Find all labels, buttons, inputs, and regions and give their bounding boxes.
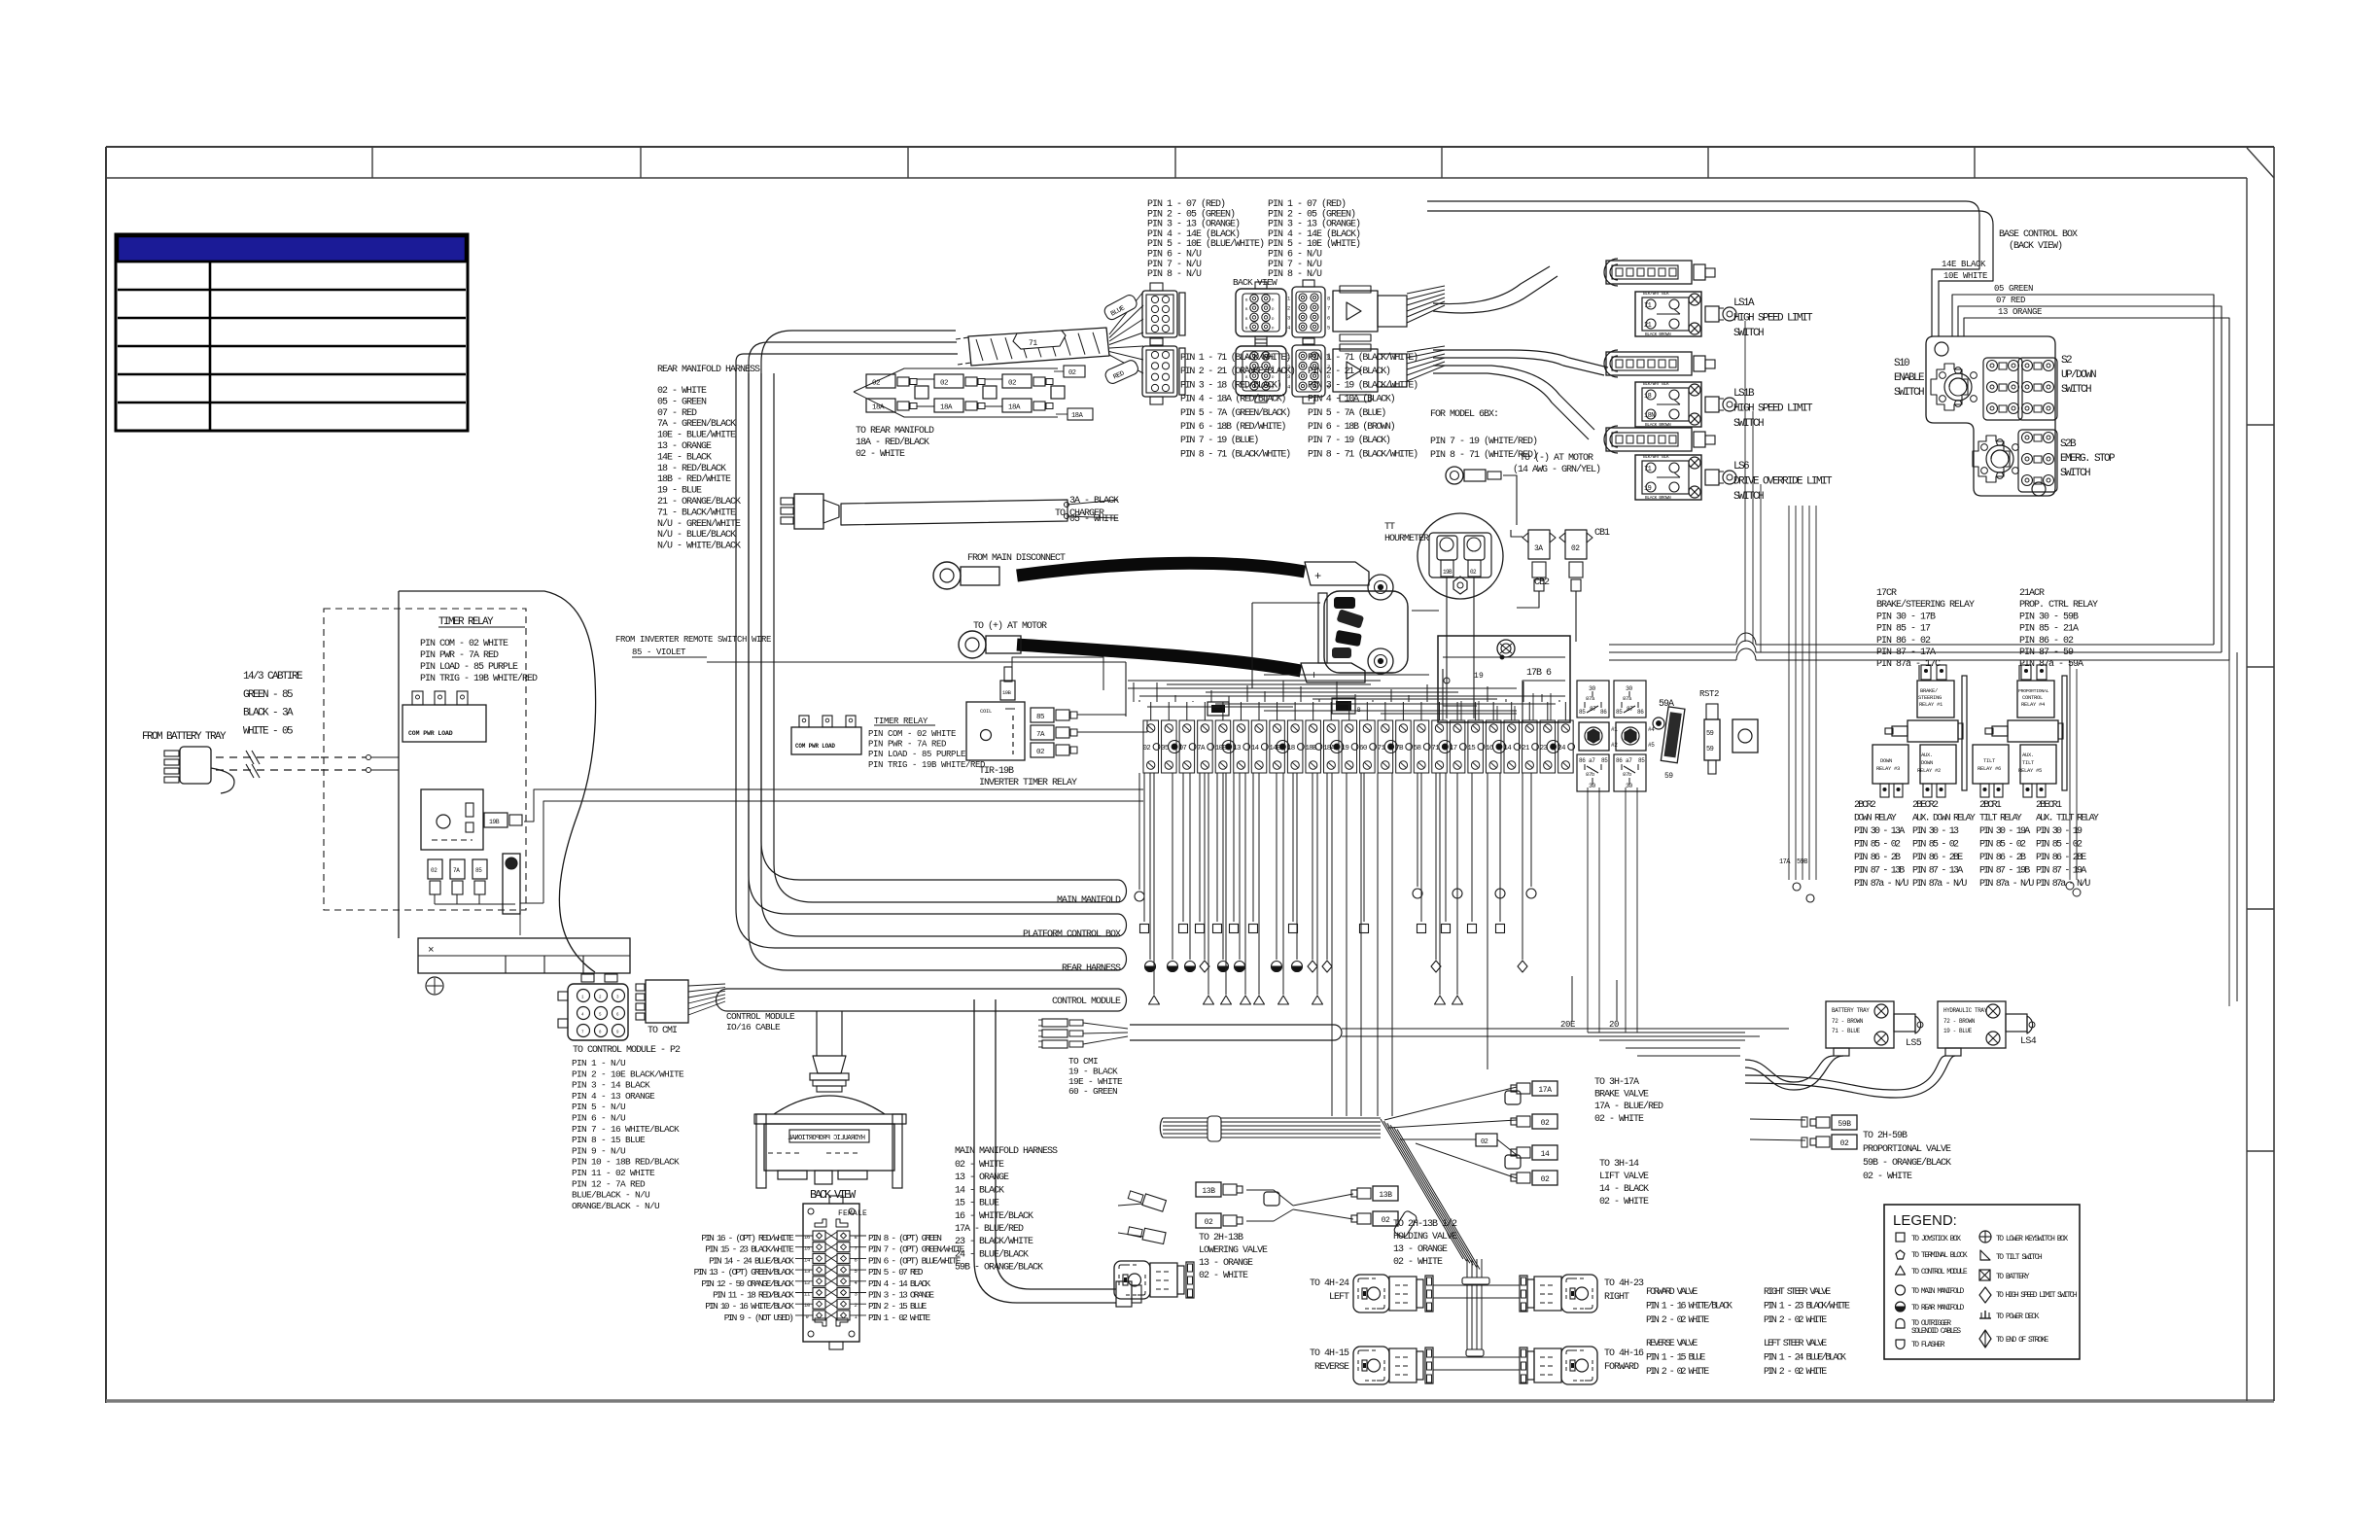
svg-text:72 - BROWN: 72 - BROWN [1832, 1018, 1864, 1025]
svg-text:TO 4H-23: TO 4H-23 [1604, 1278, 1644, 1289]
svg-text:PIN 3 - 13 (ORANGE): PIN 3 - 13 (ORANGE) [1147, 219, 1240, 230]
svg-text:PIN 2 - 02 WHITE: PIN 2 - 02 WHITE [1764, 1367, 1827, 1378]
svg-text:19: 19 [1644, 485, 1652, 493]
svg-text:18N: 18N [1644, 412, 1655, 420]
svg-text:(BACK VIEW): (BACK VIEW) [2009, 240, 2062, 252]
svg-text:TO TERMINAL BLOCK: TO TERMINAL BLOCK [1911, 1251, 1968, 1260]
svg-text:BRAKE VALVE: BRAKE VALVE [1594, 1090, 1649, 1101]
svg-text:SWITCH: SWITCH [1733, 328, 1764, 339]
svg-text:71: 71 [1644, 466, 1652, 473]
svg-text:RELAY #6: RELAY #6 [1977, 765, 2001, 772]
svg-text:5: 5 [854, 1268, 857, 1275]
svg-text:PIN 8 - N/U: PIN 8 - N/U [1147, 268, 1202, 280]
svg-text:BRAKE/: BRAKE/ [1920, 687, 1938, 694]
svg-text:AUX.: AUX. [2022, 752, 2034, 758]
svg-text:LOWERING VALVE: LOWERING VALVE [1199, 1245, 1268, 1256]
svg-text:13B: 13B [1202, 1187, 1215, 1196]
svg-text:TO MAIN MANIFOLD: TO MAIN MANIFOLD [1911, 1287, 1965, 1296]
svg-text:02 - WHITE: 02 - WHITE [1863, 1172, 1912, 1182]
svg-text:PIN 8 - 71 (BLACK/WHITE): PIN 8 - 71 (BLACK/WHITE) [1180, 448, 1290, 460]
svg-text:IO/16 CABLE: IO/16 CABLE [726, 1022, 781, 1032]
svg-text:TO LOWER KEYSWITCH BOX: TO LOWER KEYSWITCH BOX [1996, 1235, 2068, 1243]
svg-text:14 - BLACK: 14 - BLACK [1599, 1184, 1649, 1195]
svg-text:71 - BLACK/WHITE: 71 - BLACK/WHITE [657, 507, 736, 518]
svg-text:14: 14 [1251, 745, 1260, 752]
svg-text:TT: TT [1384, 522, 1395, 533]
svg-text:02 - WHITE: 02 - WHITE [955, 1160, 1004, 1171]
svg-text:TO REAR MANIFOLD: TO REAR MANIFOLD [1911, 1304, 1965, 1312]
svg-text:30: 30 [1626, 685, 1632, 692]
svg-text:BASE CONTROL BOX: BASE CONTROL BOX [1999, 229, 2078, 240]
svg-text:13: 13 [1233, 745, 1242, 752]
svg-text:PIN 87a - N/U: PIN 87a - N/U [1979, 878, 2034, 890]
svg-text:23 - BLACK/WHITE: 23 - BLACK/WHITE [955, 1236, 1033, 1247]
svg-text:15: 15 [1467, 745, 1476, 752]
svg-text:59A: 59A [1659, 699, 1674, 710]
svg-text:PIN 86 - 2BE: PIN 86 - 2BE [1912, 853, 1963, 863]
svg-text:PIN 5 - 7A (GREEN/BLACK): PIN 5 - 7A (GREEN/BLACK) [1180, 407, 1290, 419]
svg-text:PIN 87 - 19B: PIN 87 - 19B [1979, 866, 2030, 877]
svg-text:PIN TRIG - 19B WHITE/RED: PIN TRIG - 19B WHITE/RED [420, 673, 538, 684]
svg-text:RELAY #2: RELAY #2 [1917, 767, 1941, 774]
svg-text:FORWARD VALVE: FORWARD VALVE [1646, 1287, 1697, 1298]
svg-text:TO TILT SWITCH: TO TILT SWITCH [1996, 1253, 2043, 1262]
svg-text:PIN 87a - N/U: PIN 87a - N/U [2036, 878, 2090, 890]
svg-text:18A - RED/BLACK: 18A - RED/BLACK [856, 437, 929, 448]
svg-text:PIN 30 - 19A: PIN 30 - 19A [1979, 826, 2030, 837]
svg-text:+: + [1314, 570, 1322, 583]
svg-text:PIN 1 - N/U: PIN 1 - N/U [572, 1058, 626, 1068]
svg-text:PIN PWR - 7A RED: PIN PWR - 7A RED [420, 650, 499, 661]
svg-text:SWITCH: SWITCH [2061, 384, 2091, 396]
svg-text:PIN 3 - 18 (RED/BLACK): PIN 3 - 18 (RED/BLACK) [1180, 379, 1281, 391]
svg-text:PIN 8 - 71 (BLACK/WHITE): PIN 8 - 71 (BLACK/WHITE) [1308, 448, 1417, 460]
svg-text:02: 02 [1470, 569, 1477, 576]
svg-text:BRAKE/STEERING RELAY: BRAKE/STEERING RELAY [1876, 599, 1975, 611]
svg-text:2BECR2: 2BECR2 [1912, 800, 1939, 811]
svg-text:TO REAR MANIFOLD: TO REAR MANIFOLD [856, 426, 934, 437]
svg-text:7A: 7A [453, 867, 460, 874]
svg-text:86: 86 [1600, 709, 1607, 716]
svg-text:PIN 9 - (NOT USED): PIN 9 - (NOT USED) [724, 1312, 793, 1323]
svg-text:PIN TRIG - 19B WHITE/RED: PIN TRIG - 19B WHITE/RED [868, 760, 985, 770]
svg-text:19 - BLUE: 19 - BLUE [1943, 1028, 1973, 1034]
svg-text:PIN 15 - 23 BLACK/WHITE: PIN 15 - 23 BLACK/WHITE [705, 1244, 794, 1255]
svg-text:60 - GREEN: 60 - GREEN [1068, 1086, 1117, 1097]
svg-text:STEERING: STEERING [1918, 694, 1942, 701]
svg-text:PIN 1 - 07 (RED): PIN 1 - 07 (RED) [1268, 198, 1346, 210]
svg-text:PIN 2 - 05 (GREEN): PIN 2 - 05 (GREEN) [1147, 208, 1235, 220]
svg-text:02: 02 [872, 380, 880, 388]
svg-text:58: 58 [1414, 745, 1421, 752]
svg-text:PIN 1 - 23 BLACK/WHITE: PIN 1 - 23 BLACK/WHITE [1764, 1300, 1850, 1312]
svg-text:S2: S2 [2061, 355, 2072, 367]
svg-text:TO (-) AT MOTOR: TO (-) AT MOTOR [1520, 452, 1593, 464]
svg-text:TO 3H-17A: TO 3H-17A [1594, 1077, 1639, 1088]
svg-text:85: 85 [1036, 714, 1045, 721]
svg-text:LS6: LS6 [1733, 461, 1749, 472]
svg-text:13 - ORANGE: 13 - ORANGE [1199, 1258, 1253, 1269]
svg-text:RELAY #1: RELAY #1 [1919, 701, 1943, 708]
svg-text:TO HIGH SPEED LIMIT SWITCH: TO HIGH SPEED LIMIT SWITCH [1996, 1291, 2078, 1300]
svg-text:19B: 19B [489, 819, 500, 825]
svg-text:TO (+) AT MOTOR: TO (+) AT MOTOR [973, 620, 1047, 632]
svg-text:PIN 4 - 10A (BLACK): PIN 4 - 10A (BLACK) [1308, 394, 1395, 405]
svg-text:COIL: COIL [980, 708, 992, 715]
svg-text:2BECR1: 2BECR1 [2036, 800, 2062, 811]
svg-text:PIN 8 - (OPT) GREEN: PIN 8 - (OPT) GREEN [868, 1233, 941, 1243]
svg-text:59B - ORANGE/BLACK: 59B - ORANGE/BLACK [955, 1262, 1043, 1274]
svg-text:TO CMI: TO CMI [647, 1026, 677, 1036]
svg-text:PIN 7 - 19 (BLUE): PIN 7 - 19 (BLUE) [1180, 435, 1258, 446]
svg-text:18A: 18A [1071, 412, 1084, 420]
svg-text:18A: 18A [940, 404, 953, 412]
svg-text:HYDRAULIC PROPORTIONAL: HYDRAULIC PROPORTIONAL [787, 1135, 865, 1142]
svg-text:FROM MAIN DISCONNECT: FROM MAIN DISCONNECT [967, 553, 1066, 564]
svg-text:PIN 4 - 13 ORANGE: PIN 4 - 13 ORANGE [572, 1091, 655, 1102]
svg-text:#5: #5 [1648, 742, 1655, 749]
svg-text:05 - WHITE: 05 - WHITE [1069, 514, 1119, 525]
svg-text:PIN 6 - (OPT) BLUE/WHITE: PIN 6 - (OPT) BLUE/WHITE [868, 1255, 962, 1266]
svg-text:PLATFORM CONTROL BOX: PLATFORM CONTROL BOX [1023, 929, 1121, 940]
svg-text:PIN 2 - 15 BLUE: PIN 2 - 15 BLUE [868, 1301, 927, 1312]
svg-text:PIN 6 - N/U: PIN 6 - N/U [572, 1113, 626, 1124]
svg-text:17CR: 17CR [1876, 588, 1897, 599]
svg-text:02: 02 [1840, 1139, 1849, 1148]
svg-text:14E BLACK: 14E BLACK [1942, 260, 1986, 269]
svg-text:PIN 12 - 7A RED: PIN 12 - 7A RED [572, 1178, 646, 1189]
svg-text:#2: #2 [1611, 742, 1618, 749]
svg-text:PIN 2 - 21 (ORANGE/BLACK): PIN 2 - 21 (ORANGE/BLACK) [1180, 366, 1295, 377]
svg-text:02: 02 [1541, 1119, 1550, 1128]
svg-text:72 - BROWN: 72 - BROWN [1943, 1018, 1976, 1025]
svg-text:SWITCH: SWITCH [1894, 387, 1924, 399]
svg-text:PIN COM - 02 WHITE: PIN COM - 02 WHITE [868, 729, 956, 739]
svg-text:PIN 3 - 14 BLACK: PIN 3 - 14 BLACK [572, 1080, 650, 1091]
svg-text:2BCR1: 2BCR1 [1979, 800, 2002, 811]
svg-text:10: 10 [804, 1302, 810, 1309]
svg-text:PIN 86 - 2B: PIN 86 - 2B [1979, 853, 2026, 863]
svg-text:14/3 CABTIRE: 14/3 CABTIRE [243, 671, 303, 682]
svg-text:CONTROL: CONTROL [2022, 694, 2043, 701]
svg-text:TILT: TILT [2022, 759, 2035, 766]
svg-text:17A: 17A [1538, 1086, 1552, 1095]
svg-text:16: 16 [804, 1234, 810, 1241]
svg-text:19 - BLACK: 19 - BLACK [1068, 1066, 1118, 1076]
svg-text:BLK/WHT BLK: BLK/WHT BLK [1643, 454, 1669, 460]
svg-text:3A - BLACK: 3A - BLACK [1069, 496, 1119, 507]
svg-text:21: 21 [1644, 322, 1652, 330]
svg-text:AUX.: AUX. [1921, 752, 1933, 758]
svg-text:PIN 10 - 16 WHITE/BLACK: PIN 10 - 16 WHITE/BLACK [705, 1301, 794, 1312]
svg-text:TIR-19B: TIR-19B [979, 766, 1014, 777]
svg-text:02: 02 [431, 867, 437, 874]
svg-text:9: 9 [805, 1313, 808, 1320]
svg-text:PIN 87a - N/U: PIN 87a - N/U [1912, 878, 1967, 890]
svg-text:PIN PWR - 7A RED: PIN PWR - 7A RED [868, 740, 946, 750]
svg-text:GREEN - 85: GREEN - 85 [243, 689, 293, 701]
svg-text:REAR HARNESS: REAR HARNESS [1062, 963, 1121, 974]
svg-text:59B: 59B [1797, 858, 1807, 866]
svg-text:PIN 85 - 21A: PIN 85 - 21A [2019, 624, 2079, 635]
svg-text:DOWN: DOWN [1880, 757, 1892, 764]
svg-text:PIN 7 - 19 (BLACK): PIN 7 - 19 (BLACK) [1308, 435, 1390, 446]
svg-text:BLACK BROWN: BLACK BROWN [1645, 332, 1671, 337]
svg-text:FROM INVERTER REMOTE SWITCH WI: FROM INVERTER REMOTE SWITCH WIRE [615, 635, 771, 645]
svg-text:N/U - BLUE/BLACK: N/U - BLUE/BLACK [657, 529, 736, 541]
svg-text:PIN 7 - (OPT) GREEN/WHITE: PIN 7 - (OPT) GREEN/WHITE [868, 1244, 965, 1255]
svg-text:13: 13 [804, 1268, 810, 1275]
svg-text:PIN 87 - 17A: PIN 87 - 17A [1876, 647, 1936, 658]
svg-text:6: 6 [1327, 315, 1330, 322]
svg-text:87a: 87a [1623, 695, 1632, 702]
svg-text:ENABLE: ENABLE [1894, 372, 1925, 384]
svg-text:PIN 1 - 16 WHITE/BLACK: PIN 1 - 16 WHITE/BLACK [1646, 1300, 1732, 1312]
svg-text:19: 19 [1342, 745, 1349, 752]
svg-text:a7: a7 [1626, 757, 1632, 764]
svg-text:14: 14 [1541, 1150, 1550, 1159]
svg-text:59: 59 [1706, 746, 1714, 753]
svg-text:(14 AWG - GRN/YEL): (14 AWG - GRN/YEL) [1513, 464, 1600, 475]
svg-text:REAR MANIFOLD HARNESS: REAR MANIFOLD HARNESS [657, 365, 760, 375]
svg-text:COM PWR LOAD: COM PWR LOAD [408, 730, 453, 737]
svg-text:PIN 13 - (OPT) GREEN/BLACK: PIN 13 - (OPT) GREEN/BLACK [694, 1267, 795, 1277]
svg-text:RELAY #4: RELAY #4 [2021, 701, 2046, 708]
svg-text:FOR MODEL 6BX:: FOR MODEL 6BX: [1430, 409, 1498, 420]
svg-text:18A: 18A [1008, 404, 1021, 412]
svg-text:02: 02 [1143, 745, 1151, 752]
svg-text:TO BATTERY: TO BATTERY [1996, 1273, 2030, 1281]
svg-text:PIN 1 - 71 (BLACK/WHITE): PIN 1 - 71 (BLACK/WHITE) [1308, 352, 1417, 364]
svg-text:18: 18 [1287, 745, 1295, 752]
svg-text:18 - RED/BLACK: 18 - RED/BLACK [657, 463, 726, 474]
svg-text:TO FLASHER: TO FLASHER [1911, 1341, 1945, 1349]
svg-text:S10: S10 [1894, 358, 1909, 369]
svg-text:02: 02 [1205, 1218, 1213, 1227]
svg-text:18B - RED/WHITE: 18B - RED/WHITE [657, 473, 731, 485]
svg-text:a7: a7 [1589, 757, 1595, 764]
svg-text:CB1: CB1 [1594, 528, 1610, 539]
svg-text:PIN 7 - N/U: PIN 7 - N/U [1147, 259, 1202, 270]
svg-text:MAIN MANIFOLD: MAIN MANIFOLD [1057, 895, 1121, 906]
svg-text:LEFT: LEFT [1329, 1292, 1349, 1303]
svg-text:PIN 85 - 02: PIN 85 - 02 [1854, 840, 1901, 851]
svg-text:PIN 4 - 14 BLACK: PIN 4 - 14 BLACK [868, 1278, 931, 1289]
svg-text:PIN 10 - 18B RED/BLACK: PIN 10 - 18B RED/BLACK [572, 1157, 680, 1168]
svg-text:TO 4H-16: TO 4H-16 [1604, 1348, 1644, 1359]
svg-text:59: 59 [1706, 730, 1714, 738]
svg-text:3A: 3A [1534, 544, 1543, 553]
svg-text:PIN 7 - N/U: PIN 7 - N/U [1268, 259, 1322, 270]
svg-text:TO POWER DECK: TO POWER DECK [1996, 1312, 2040, 1321]
svg-text:86: 86 [1637, 709, 1644, 716]
svg-text:PIN 87a - N/U: PIN 87a - N/U [1854, 878, 1908, 890]
svg-text:85: 85 [1579, 709, 1586, 716]
svg-text:PIN 87 - 19A: PIN 87 - 19A [2036, 866, 2086, 877]
svg-text:02: 02 [1481, 1138, 1488, 1146]
svg-text:RIGHT STEER VALVE: RIGHT STEER VALVE [1764, 1287, 1831, 1298]
svg-text:FORWARD: FORWARD [1604, 1362, 1639, 1373]
svg-text:BLACK - 3A: BLACK - 3A [243, 708, 294, 719]
svg-text:PIN 85 - 02: PIN 85 - 02 [1912, 840, 1959, 851]
svg-text:PIN LOAD - 85 PURPLE: PIN LOAD - 85 PURPLE [420, 662, 518, 673]
svg-text:21: 21 [1522, 745, 1530, 752]
svg-text:PIN 30 - 13: PIN 30 - 13 [1912, 826, 1959, 837]
svg-text:HYDRAULIC TRAY: HYDRAULIC TRAY [1943, 1007, 1988, 1014]
svg-text:21ACR: 21ACR [2019, 588, 2045, 599]
svg-text:14 - BLACK: 14 - BLACK [955, 1185, 1004, 1196]
svg-text:REVERSE: REVERSE [1314, 1362, 1349, 1373]
svg-text:LS1A: LS1A [1733, 297, 1755, 309]
svg-text:EMERG. STOP: EMERG. STOP [2060, 453, 2116, 465]
svg-text:02: 02 [1068, 369, 1076, 377]
svg-text:PIN 1 - 07 (RED): PIN 1 - 07 (RED) [1147, 198, 1225, 210]
svg-text:13 ORANGE: 13 ORANGE [1998, 307, 2042, 317]
svg-text:PIN 5 - 10E (BLUE/WHITE): PIN 5 - 10E (BLUE/WHITE) [1147, 238, 1264, 250]
svg-text:PIN 85 - 17: PIN 85 - 17 [1876, 624, 1931, 635]
svg-text:85 - VIOLET: 85 - VIOLET [632, 647, 686, 657]
svg-text:CONTROL MODULE: CONTROL MODULE [1052, 997, 1121, 1007]
svg-text:TO 4H-24: TO 4H-24 [1310, 1278, 1349, 1289]
svg-text:7A: 7A [1036, 731, 1045, 739]
svg-text:10E WHITE: 10E WHITE [1943, 271, 1987, 281]
svg-text:FEMALE: FEMALE [838, 1209, 867, 1218]
svg-text:N/U - GREEN/WHITE: N/U - GREEN/WHITE [657, 518, 741, 530]
svg-text:6: 6 [854, 1256, 857, 1263]
svg-text:19B: 19B [1002, 689, 1012, 696]
svg-text:59: 59 [1664, 772, 1673, 781]
svg-text:HIGH SPEED LIMIT: HIGH SPEED LIMIT [1733, 313, 1813, 325]
svg-text:TILT: TILT [1983, 757, 1996, 764]
svg-text:TIMER RELAY: TIMER RELAY [438, 616, 494, 628]
svg-text:02: 02 [1036, 749, 1044, 756]
svg-text:BLUE/BLACK - N/U: BLUE/BLACK - N/U [572, 1190, 650, 1201]
svg-text:15: 15 [804, 1245, 810, 1252]
svg-text:PIN 4 - 14E (BLACK): PIN 4 - 14E (BLACK) [1268, 228, 1360, 240]
svg-text:13 - ORANGE: 13 - ORANGE [1393, 1244, 1448, 1255]
svg-text:PIN 2 - 10E BLACK/WHITE: PIN 2 - 10E BLACK/WHITE [572, 1068, 684, 1079]
svg-text:21 - ORANGE/BLACK: 21 - ORANGE/BLACK [657, 496, 741, 507]
svg-text:TO 2H-59B: TO 2H-59B [1863, 1131, 1907, 1141]
svg-text:71 - BLUE: 71 - BLUE [1832, 1028, 1861, 1034]
svg-text:S2B: S2B [2060, 438, 2077, 450]
svg-text:LS4: LS4 [2020, 1036, 2037, 1047]
svg-text:14E - BLACK: 14E - BLACK [657, 452, 712, 463]
svg-text:LEFT STEER VALVE: LEFT STEER VALVE [1764, 1339, 1827, 1349]
svg-text:PIN 2 - 05 (GREEN): PIN 2 - 05 (GREEN) [1268, 208, 1355, 220]
svg-text:59B - ORANGE/BLACK: 59B - ORANGE/BLACK [1863, 1157, 1951, 1169]
svg-text:TO END OF STROKE: TO END OF STROKE [1996, 1336, 2049, 1345]
svg-text:3: 3 [854, 1291, 857, 1298]
svg-text:PIN 9 - N/U: PIN 9 - N/U [572, 1145, 626, 1156]
svg-text:PIN 16 - (OPT) RED/WHITE: PIN 16 - (OPT) RED/WHITE [701, 1233, 794, 1243]
svg-text:02 - WHITE: 02 - WHITE [1199, 1271, 1248, 1281]
svg-text:TO 4H-15: TO 4H-15 [1310, 1348, 1349, 1359]
svg-text:TO CONTROL MODULE: TO CONTROL MODULE [1911, 1268, 1968, 1277]
svg-text:RIGHT: RIGHT [1604, 1292, 1629, 1303]
svg-text:71: 71 [1029, 339, 1037, 348]
svg-text:BLK/WHT BLK: BLK/WHT BLK [1643, 291, 1669, 297]
svg-text:17B 6: 17B 6 [1526, 668, 1552, 679]
svg-text:PROPORTIONAL VALVE: PROPORTIONAL VALVE [1863, 1144, 1951, 1155]
svg-text:85: 85 [1638, 757, 1645, 764]
svg-text:DOWN: DOWN [1921, 759, 1933, 766]
svg-text:02: 02 [1571, 544, 1580, 553]
svg-text:86: 86 [1579, 757, 1586, 764]
svg-text:PIN COM - 02 WHITE: PIN COM - 02 WHITE [420, 639, 508, 649]
svg-text:14: 14 [804, 1256, 811, 1263]
svg-text:PIN 8 - 15 BLUE: PIN 8 - 15 BLUE [572, 1135, 646, 1145]
svg-text:BLACK BROWN: BLACK BROWN [1645, 495, 1671, 501]
svg-text:PIN 6 - 18B (RED/WHITE): PIN 6 - 18B (RED/WHITE) [1180, 421, 1285, 433]
svg-text:PIN 2 - 02 WHITE: PIN 2 - 02 WHITE [1764, 1315, 1827, 1326]
svg-text:02 - WHITE: 02 - WHITE [657, 386, 707, 397]
svg-text:PIN 30 - 59B: PIN 30 - 59B [2019, 612, 2079, 622]
svg-text:7: 7 [1327, 305, 1330, 312]
svg-text:BLK/WHT BLK: BLK/WHT BLK [1643, 381, 1669, 387]
svg-text:19B: 19B [1443, 569, 1452, 576]
svg-text:PIN 11 - 18 RED/BLACK: PIN 11 - 18 RED/BLACK [713, 1290, 794, 1301]
svg-text:71: 71 [1644, 302, 1652, 310]
svg-text:13B: 13B [1379, 1191, 1392, 1200]
svg-text:30: 30 [1589, 685, 1595, 692]
svg-text:PIN 30 - 13A: PIN 30 - 13A [1854, 826, 1905, 837]
svg-text:PIN 6 - N/U: PIN 6 - N/U [1147, 249, 1202, 261]
svg-text:TO CMI: TO CMI [1068, 1056, 1098, 1067]
svg-text:PIN 2 - 21 (BLACK): PIN 2 - 21 (BLACK) [1308, 366, 1390, 377]
svg-text:TO 3H-14: TO 3H-14 [1599, 1159, 1639, 1170]
svg-text:MAIN MANIFOLD HARNESS: MAIN MANIFOLD HARNESS [955, 1146, 1058, 1157]
svg-text:DRIVE OVERRIDE LIMIT: DRIVE OVERRIDE LIMIT [1733, 476, 1833, 488]
svg-text:PIN 3 - 13 ORANGE: PIN 3 - 13 ORANGE [868, 1290, 934, 1301]
svg-text:PIN 3 - 19 (BLACK/WHITE): PIN 3 - 19 (BLACK/WHITE) [1308, 379, 1417, 391]
svg-text:PIN 7 - 19 (WHITE/RED): PIN 7 - 19 (WHITE/RED) [1430, 436, 1537, 447]
svg-text:13 - ORANGE: 13 - ORANGE [955, 1172, 1009, 1183]
svg-text:17A: 17A [1779, 858, 1791, 866]
svg-text:PIN 30 - 17B: PIN 30 - 17B [1876, 612, 1936, 622]
svg-text:CB2: CB2 [1534, 577, 1550, 588]
svg-text:17: 17 [1450, 745, 1457, 752]
svg-text:PIN 86 - 02: PIN 86 - 02 [2019, 636, 2074, 647]
svg-text:LEGEND:: LEGEND: [1893, 1212, 1957, 1229]
svg-text:SOLENOID CABLES: SOLENOID CABLES [1911, 1327, 1961, 1336]
svg-text:PIN 87 - 13B: PIN 87 - 13B [1854, 866, 1905, 877]
svg-text:LS5: LS5 [1906, 1038, 1922, 1049]
svg-text:85: 85 [1601, 757, 1608, 764]
svg-text:TILT RELAY: TILT RELAY [1979, 814, 2022, 824]
svg-text:TO 2H-13B: TO 2H-13B [1199, 1233, 1243, 1243]
svg-text:PIN 86 - 02: PIN 86 - 02 [1876, 636, 1931, 647]
svg-text:RELAY #3: RELAY #3 [1876, 765, 1900, 772]
svg-text:PIN 6 - 18B (BROWN): PIN 6 - 18B (BROWN) [1308, 421, 1395, 433]
svg-text:PIN 1 - 71 (BLACK/WHITE): PIN 1 - 71 (BLACK/WHITE) [1180, 352, 1290, 364]
svg-text:02 - WHITE: 02 - WHITE [1599, 1197, 1649, 1207]
svg-text:02: 02 [1541, 1175, 1550, 1184]
svg-text:19 - BLUE: 19 - BLUE [657, 486, 702, 497]
svg-text:SWITCH: SWITCH [2060, 468, 2090, 479]
svg-text:AUX. DOWN RELAY: AUX. DOWN RELAY [1912, 814, 1976, 824]
svg-text:3: 3 [1287, 315, 1290, 322]
svg-text:87a: 87a [1586, 695, 1595, 702]
svg-text:07 RED: 07 RED [1996, 296, 2025, 305]
svg-text:FROM BATTERY TRAY: FROM BATTERY TRAY [142, 731, 227, 743]
svg-text:PIN 14 - 24 BLUE/BLACK: PIN 14 - 24 BLUE/BLACK [709, 1255, 794, 1266]
svg-text:PIN 30 - 19: PIN 30 - 19 [2036, 826, 2082, 837]
svg-text:14: 14 [1504, 745, 1513, 752]
svg-text:5: 5 [1327, 325, 1330, 332]
svg-text:#1: #1 [1611, 726, 1618, 733]
svg-text:15 - BLUE: 15 - BLUE [955, 1199, 999, 1209]
